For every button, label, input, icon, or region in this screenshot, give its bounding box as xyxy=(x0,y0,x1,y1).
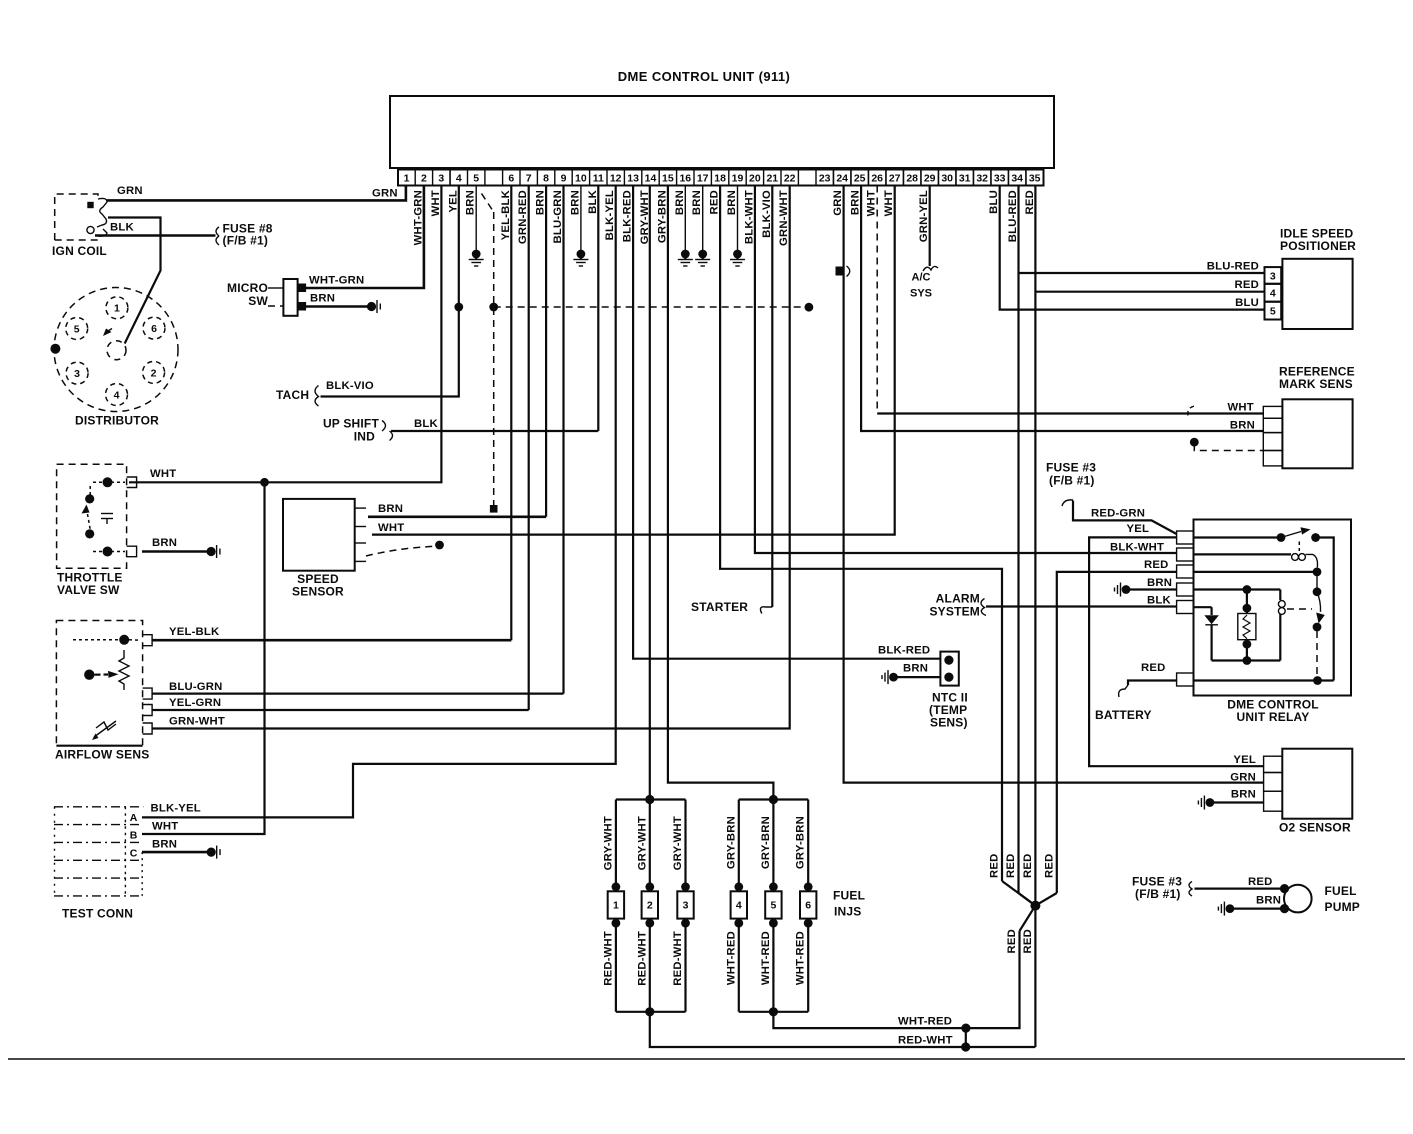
wire speed sensor dashed stub xyxy=(366,546,437,556)
node dashed wire end dot xyxy=(805,303,814,312)
throttle valve switch xyxy=(57,464,127,568)
svg-text:29: 29 xyxy=(924,173,936,185)
wire pin 33 BLU to idle speed positioner xyxy=(1000,186,1265,310)
svg-text:BLU-GRN: BLU-GRN xyxy=(552,190,564,243)
node BRN terminal xyxy=(367,302,376,311)
wire BRN ground to relay xyxy=(1130,588,1177,590)
svg-text:12: 12 xyxy=(610,173,622,185)
fuel injector 5 xyxy=(772,800,774,892)
tach connector xyxy=(315,386,319,407)
throttle switch contact bottom xyxy=(103,547,113,557)
airflow sensor potentiometer xyxy=(119,650,129,690)
wire NTC BRN xyxy=(897,676,940,678)
svg-text:24: 24 xyxy=(836,173,848,185)
svg-text:26: 26 xyxy=(871,173,883,185)
svg-text:BRN: BRN xyxy=(1256,895,1281,907)
relay coil to armature dashed link xyxy=(1287,608,1312,610)
svg-text:2: 2 xyxy=(647,900,653,912)
battery connector hook xyxy=(1119,685,1128,697)
svg-text:BLK-RED: BLK-RED xyxy=(622,190,634,242)
svg-text:WHT-GRN: WHT-GRN xyxy=(309,275,364,287)
svg-text:31: 31 xyxy=(959,173,971,185)
svg-text:YEL: YEL xyxy=(1127,523,1150,535)
svg-text:BLU: BLU xyxy=(988,190,1000,214)
svg-text:14: 14 xyxy=(645,173,657,185)
airflow sensor xyxy=(56,621,142,746)
relay switch blade xyxy=(1281,532,1301,538)
relay internal bottom rail xyxy=(1212,659,1281,661)
svg-text:4: 4 xyxy=(736,900,742,912)
svg-text:GRN-RED: GRN-RED xyxy=(517,190,529,244)
node dashed wire dot xyxy=(489,303,498,312)
svg-text:2: 2 xyxy=(151,367,157,379)
svg-text:INJS: INJS xyxy=(834,905,861,919)
wire pin 8 BRN to speed sensor xyxy=(545,186,547,517)
svg-text:1: 1 xyxy=(114,303,120,315)
wire speed sensor BRN to pin 8 xyxy=(368,515,546,518)
svg-text:RED-WHT: RED-WHT xyxy=(602,931,614,986)
svg-text:20: 20 xyxy=(749,173,761,185)
svg-text:YEL: YEL xyxy=(1233,754,1256,766)
svg-text:SYS: SYS xyxy=(910,288,932,300)
node test conn BRN terminal xyxy=(207,848,216,857)
ground O2 BRN xyxy=(1206,798,1215,807)
svg-text:AIRFLOW SENS: AIRFLOW SENS xyxy=(55,748,149,762)
throttle switch capacitor bars xyxy=(101,513,113,515)
wire BRN ground to fuel pump xyxy=(1233,907,1284,909)
node inline connector on GRN wire xyxy=(836,267,844,276)
svg-text:STARTER: STARTER xyxy=(691,600,748,614)
fuel pump motor xyxy=(1284,885,1312,913)
svg-text:5: 5 xyxy=(473,173,479,185)
svg-text:IND: IND xyxy=(354,430,375,444)
NTC II temp sensor connector xyxy=(940,652,958,686)
svg-text:BRN: BRN xyxy=(674,190,686,215)
micro switch xyxy=(283,279,297,316)
wire pin 6 YEL-BLK to airflow sensor xyxy=(510,186,512,641)
svg-text:RED: RED xyxy=(1144,559,1168,571)
svg-text:GRN: GRN xyxy=(832,190,844,216)
svg-text:25: 25 xyxy=(854,173,866,185)
wire airflow BLU-GRN to pin 9 xyxy=(152,692,564,694)
throttle switch contact top xyxy=(103,477,113,487)
svg-text:BRN: BRN xyxy=(850,190,862,215)
svg-text:WHT: WHT xyxy=(152,821,178,833)
relay terminal RED xyxy=(1177,565,1194,578)
wire WHT-RED supply rail xyxy=(773,931,1019,1028)
svg-text:GRY-WHT: GRY-WHT xyxy=(672,816,684,870)
svg-text:RED: RED xyxy=(1248,876,1272,888)
test connector xyxy=(54,806,143,808)
wire dashed horizontal link xyxy=(494,306,809,308)
svg-text:4: 4 xyxy=(456,173,462,185)
svg-text:3: 3 xyxy=(683,900,689,912)
svg-text:BRN: BRN xyxy=(535,190,547,215)
wire test conn C BRN stub xyxy=(142,851,209,854)
distributor cap terminal 2 xyxy=(143,361,165,383)
wire link between rails xyxy=(965,1028,967,1047)
wire RED-GRN fuse #3 to relay xyxy=(1073,501,1177,535)
relay armature dashed link xyxy=(1316,631,1318,676)
svg-text:BLU: BLU xyxy=(1235,297,1259,309)
node junction dot pin 4 on dashed line level xyxy=(454,303,463,312)
relay terminal BRN xyxy=(1177,583,1194,596)
wire RED diag from pin18 feed xyxy=(1002,881,1035,906)
svg-text:UNIT RELAY: UNIT RELAY xyxy=(1237,710,1310,724)
relay internal YEL wire xyxy=(1194,536,1282,538)
svg-text:3: 3 xyxy=(438,173,444,185)
node A/C connector curl xyxy=(923,266,938,271)
svg-text:BLK: BLK xyxy=(1147,595,1171,607)
svg-text:BLK: BLK xyxy=(110,222,134,234)
fuel injector 1 xyxy=(615,800,617,892)
svg-text:YEL-GRN: YEL-GRN xyxy=(169,697,221,709)
svg-text:WHT-RED: WHT-RED xyxy=(725,931,737,985)
wire micro switch BRN stub xyxy=(306,305,369,308)
svg-text:BRN: BRN xyxy=(1231,789,1256,801)
wire pin 20 BLK-WHT to DME relay xyxy=(755,186,1177,554)
wire battery RED to relay xyxy=(1128,681,1177,686)
svg-text:6: 6 xyxy=(151,323,157,335)
O2 sensor xyxy=(1282,749,1352,819)
svg-text:WHT: WHT xyxy=(378,522,404,534)
throttle switch wiper arrow xyxy=(82,505,90,514)
ground pin 17 xyxy=(698,250,707,259)
DME connector pin row 1-35 xyxy=(398,170,1044,186)
svg-text:VALVE SW: VALVE SW xyxy=(57,583,120,597)
svg-text:GRN: GRN xyxy=(372,188,398,200)
svg-text:RED-WHT: RED-WHT xyxy=(672,931,684,986)
svg-text:SENSOR: SENSOR xyxy=(292,585,344,599)
svg-text:GRY-WHT: GRY-WHT xyxy=(636,816,648,870)
wire RED relay feed down to injector supply xyxy=(1057,572,1177,893)
svg-text:WHT: WHT xyxy=(883,190,895,216)
wire shield dashed to ref mark sensor xyxy=(1190,438,1199,447)
svg-text:3: 3 xyxy=(1270,270,1276,282)
wire up shift IND BLK to pin 11 xyxy=(391,430,598,432)
svg-text:TEST CONN: TEST CONN xyxy=(62,907,133,921)
wire pin 34 BLU-RED to idle speed positioner xyxy=(1017,186,1019,894)
svg-text:POSITIONER: POSITIONER xyxy=(1280,239,1356,253)
wire RED diag from pin34 feed xyxy=(1019,893,1036,906)
node dashed stub dot xyxy=(435,541,444,550)
svg-text:YEL-BLK: YEL-BLK xyxy=(169,626,220,638)
relay resistor xyxy=(1246,590,1248,614)
distributor xyxy=(54,288,178,412)
ground NTC BRN xyxy=(889,673,898,682)
wire pin 2 WHT-GRN to micro switch xyxy=(303,186,424,289)
svg-text:UP SHIFT: UP SHIFT xyxy=(323,417,380,431)
wire pin 26 WHT dashed to reference mark sensor xyxy=(876,186,878,414)
svg-text:RED: RED xyxy=(989,854,1001,878)
svg-text:RED-WHT: RED-WHT xyxy=(898,1035,953,1047)
wire pin 3 WHT to throttle valve switch xyxy=(129,186,441,483)
wire pin 17 BRN to ground xyxy=(702,186,704,255)
svg-text:BLK: BLK xyxy=(587,189,599,213)
svg-text:RED: RED xyxy=(1022,929,1034,953)
svg-text:BLK-YEL: BLK-YEL xyxy=(151,803,201,815)
wire pin 4 YEL to TACH xyxy=(321,186,459,397)
wire pin 29 GRN-YEL to A/C system xyxy=(929,186,931,267)
svg-text:13: 13 xyxy=(627,173,639,185)
fuse #3 connector hook xyxy=(1062,500,1073,506)
DME control unit box xyxy=(390,96,1054,168)
throttle switch contact mid-top xyxy=(85,494,94,503)
relay terminal YEL xyxy=(1177,531,1194,544)
svg-text:3: 3 xyxy=(74,368,80,380)
svg-text:BRN: BRN xyxy=(691,190,703,215)
starter connector xyxy=(760,607,772,614)
svg-text:1: 1 xyxy=(613,900,619,912)
svg-text:22: 22 xyxy=(784,173,796,185)
svg-text:1: 1 xyxy=(404,173,410,185)
svg-text:8: 8 xyxy=(543,173,549,185)
wire O2 BRN xyxy=(1213,801,1264,803)
svg-text:(F/B #1): (F/B #1) xyxy=(1135,887,1181,901)
svg-text:RED: RED xyxy=(1022,854,1034,878)
svg-text:6: 6 xyxy=(508,173,514,185)
up shift connector xyxy=(382,421,393,441)
wire YEL O2 sensor to relay xyxy=(1089,537,1264,766)
svg-text:BLK-WHT: BLK-WHT xyxy=(743,190,755,244)
micro switch terminal WHT-GRN xyxy=(298,284,307,293)
svg-text:BLU-GRN: BLU-GRN xyxy=(169,681,222,693)
relay diode xyxy=(1194,606,1212,608)
svg-text:GRN-YEL: GRN-YEL xyxy=(918,190,930,242)
fuel injector 4 xyxy=(738,800,740,892)
svg-text:IGN COIL: IGN COIL xyxy=(52,244,107,258)
svg-text:27: 27 xyxy=(889,173,901,185)
DME control unit relay box xyxy=(1194,520,1352,696)
wire pin 5 BRN to ground xyxy=(475,186,477,255)
svg-text:BRN: BRN xyxy=(903,663,928,675)
svg-text:11: 11 xyxy=(593,173,604,185)
svg-text:2: 2 xyxy=(421,173,427,185)
wire pin 10 BRN to ground xyxy=(580,186,582,255)
wire pin 18 RED feed to injector supply xyxy=(720,186,1002,882)
svg-text:SYSTEM: SYSTEM xyxy=(929,605,980,619)
svg-text:MICRO: MICRO xyxy=(227,281,268,295)
svg-text:A/C: A/C xyxy=(912,272,931,284)
ignition coil xyxy=(55,194,98,240)
svg-text:GRY-BRN: GRY-BRN xyxy=(760,816,772,869)
wire pin 1 GRN stub xyxy=(107,186,406,201)
svg-text:GRN-WHT: GRN-WHT xyxy=(169,716,225,728)
wire RED fuse to fuel pump xyxy=(1195,887,1285,889)
ground relay BRN xyxy=(1122,585,1131,594)
airflow sensor top contact xyxy=(119,635,129,645)
svg-text:GRY-BRN: GRY-BRN xyxy=(725,816,737,869)
node dot on distributor rim xyxy=(50,344,60,354)
wire alarm system BLK to relay xyxy=(986,605,1177,607)
svg-text:19: 19 xyxy=(732,173,744,185)
distributor rotor arrow xyxy=(103,329,112,337)
svg-text:7: 7 xyxy=(526,173,532,185)
svg-text:RED: RED xyxy=(1024,190,1036,214)
wire pin 19 BRN to ground xyxy=(737,186,739,255)
wire pin 16 BRN to ground xyxy=(684,186,686,255)
svg-text:BLK: BLK xyxy=(414,418,438,430)
node dashed wire terminal square on speed sensor BRN wire xyxy=(490,505,498,513)
svg-text:BLK-YEL: BLK-YEL xyxy=(604,190,616,240)
svg-text:(F/B #1): (F/B #1) xyxy=(1049,474,1095,488)
wire pin 35 RED long feed xyxy=(1034,186,1036,1048)
svg-text:RED: RED xyxy=(1141,662,1165,674)
svg-text:O2 SENSOR: O2 SENSOR xyxy=(1279,821,1351,835)
svg-text:RED: RED xyxy=(709,190,721,214)
svg-text:17: 17 xyxy=(697,173,709,185)
bottom rule xyxy=(8,1058,1405,1060)
svg-text:(F/B #1): (F/B #1) xyxy=(223,234,269,248)
wire RED branch to ISP pin 4 xyxy=(1035,291,1264,293)
ground pin 5 xyxy=(472,250,481,259)
svg-text:WHT: WHT xyxy=(430,190,442,216)
svg-text:34: 34 xyxy=(1011,173,1023,185)
svg-text:WHT: WHT xyxy=(150,468,176,480)
svg-text:RED: RED xyxy=(1006,929,1018,953)
svg-text:6: 6 xyxy=(805,900,811,912)
ign coil terminal 1 xyxy=(87,202,93,208)
svg-text:B: B xyxy=(130,830,138,842)
ground fuel pump BRN xyxy=(1226,904,1235,913)
svg-text:4: 4 xyxy=(1270,288,1276,300)
wire airflow YEL-GRN to pin 7 xyxy=(152,709,529,711)
fuel injector 3 xyxy=(684,800,686,892)
svg-text:BLK-VIO: BLK-VIO xyxy=(326,380,374,392)
svg-text:BLU-RED: BLU-RED xyxy=(1007,190,1019,242)
node junction dot on throttle WHT wire xyxy=(260,478,269,487)
svg-text:BLK-VIO: BLK-VIO xyxy=(761,190,773,238)
svg-text:35: 35 xyxy=(1029,173,1041,185)
svg-text:RED: RED xyxy=(1235,279,1259,291)
svg-text:4: 4 xyxy=(114,389,120,401)
svg-text:5: 5 xyxy=(770,900,776,912)
svg-text:BRN: BRN xyxy=(152,839,177,851)
svg-text:YEL-BLK: YEL-BLK xyxy=(500,189,512,240)
relay switch common to output xyxy=(1316,538,1334,681)
ground pin 16 xyxy=(681,250,690,259)
svg-text:BRN: BRN xyxy=(1230,420,1255,432)
distributor cap terminal 3 xyxy=(66,362,88,384)
airflow sensor temp resistor xyxy=(96,722,116,730)
wire pin 9 BLU-GRN to airflow sensor xyxy=(562,186,564,694)
svg-text:GRY-WHT: GRY-WHT xyxy=(602,816,614,870)
svg-text:FUEL: FUEL xyxy=(833,889,865,903)
wire pin 14 GRY-WHT to fuel injectors 1-3 xyxy=(649,186,651,800)
svg-text:GRN: GRN xyxy=(117,185,143,197)
svg-text:PUMP: PUMP xyxy=(1325,900,1360,914)
svg-text:BLU-RED: BLU-RED xyxy=(1207,261,1259,273)
speed sensor xyxy=(283,499,355,571)
distributor cap terminal 1 xyxy=(106,297,128,319)
svg-text:GRY-BRN: GRY-BRN xyxy=(656,190,668,243)
svg-text:WHT: WHT xyxy=(1227,402,1253,414)
wire pin 25 BRN to reference mark sensor xyxy=(861,186,1263,432)
wire RED diag to WHT-RED rail xyxy=(1020,906,1036,931)
svg-text:RED-WHT: RED-WHT xyxy=(636,931,648,986)
wire ign coil BLK to fuse #8 xyxy=(95,234,216,237)
svg-text:BRN: BRN xyxy=(569,190,581,215)
relay terminal BLK-WHT xyxy=(1177,548,1194,561)
node inline connector tick on WHT wire xyxy=(1188,406,1195,416)
svg-text:FUSE #3: FUSE #3 xyxy=(1046,461,1096,475)
distributor cap terminal 5 xyxy=(66,318,88,340)
svg-text:32: 32 xyxy=(976,173,988,185)
svg-text:15: 15 xyxy=(662,173,674,185)
throttle switch contact mid-bottom xyxy=(85,529,94,538)
svg-text:A: A xyxy=(130,812,138,824)
wire RED diag from relay feed xyxy=(1035,893,1056,906)
ground pin 19 xyxy=(733,250,742,259)
svg-text:30: 30 xyxy=(941,173,953,185)
node throttle BRN terminal xyxy=(207,547,216,556)
svg-text:BRN: BRN xyxy=(1147,577,1172,589)
fuel injector group 1 frame xyxy=(616,798,686,800)
svg-text:BATTERY: BATTERY xyxy=(1095,708,1152,722)
svg-text:DME CONTROL UNIT (911): DME CONTROL UNIT (911) xyxy=(618,69,791,84)
wire test-conn WHT riser xyxy=(142,482,265,834)
fuel injector group 2 frame xyxy=(739,798,808,800)
svg-text:10: 10 xyxy=(575,173,587,185)
svg-text:GRN: GRN xyxy=(1230,772,1256,784)
svg-text:BRN: BRN xyxy=(465,190,477,215)
wire dashed spare-slot vertical xyxy=(493,212,495,505)
svg-text:BRN: BRN xyxy=(310,293,335,305)
svg-text:TACH: TACH xyxy=(276,388,309,402)
svg-text:BRN: BRN xyxy=(378,503,403,515)
wire BLU-RED branch to ISP pin 3 xyxy=(1019,272,1265,274)
svg-text:WHT-RED: WHT-RED xyxy=(898,1016,952,1028)
svg-text:MARK SENS: MARK SENS xyxy=(1279,377,1353,391)
wire throttle BRN stub xyxy=(142,550,209,553)
distributor cap terminal 4 xyxy=(106,384,128,406)
fuel injector 2 xyxy=(649,800,651,892)
svg-text:21: 21 xyxy=(766,173,778,185)
relay internal RED wire xyxy=(1194,571,1315,573)
fuse #3 connector xyxy=(1189,882,1192,897)
svg-text:SENS): SENS) xyxy=(930,716,968,730)
svg-text:YEL: YEL xyxy=(447,190,459,213)
svg-text:18: 18 xyxy=(714,173,726,185)
svg-text:BRN: BRN xyxy=(726,190,738,215)
distributor cap terminal 6 xyxy=(143,317,165,339)
svg-text:16: 16 xyxy=(679,173,691,185)
svg-text:WHT-RED: WHT-RED xyxy=(760,931,772,985)
wire pin 22 GRN-WHT to airflow sensor xyxy=(152,186,790,729)
relay internal BLK-WHT winding xyxy=(1194,553,1292,555)
wire pin 7 GRN-RED to airflow sensor xyxy=(528,186,530,711)
svg-text:9: 9 xyxy=(561,173,567,185)
wire pin 12 BLK-YEL to test connector xyxy=(142,186,616,818)
ign coil terminal 2 xyxy=(87,226,94,233)
svg-text:ALARM: ALARM xyxy=(936,592,980,606)
svg-text:GRN-WHT: GRN-WHT xyxy=(778,190,790,246)
node RED merge junction xyxy=(1030,901,1040,911)
wire pin 21 BLK-VIO to starter xyxy=(771,186,773,608)
svg-text:BLK-WHT: BLK-WHT xyxy=(1110,542,1164,554)
ground pin 10 xyxy=(577,250,586,259)
wire pin 15 GRY-BRN to fuel injectors 4-6 xyxy=(668,186,774,800)
wire airflow YEL-BLK to pin 6 xyxy=(152,639,511,642)
wire dashed spare-slot diagonal xyxy=(482,194,494,213)
svg-text:C: C xyxy=(130,848,138,860)
svg-text:RED-GRN: RED-GRN xyxy=(1091,508,1145,520)
micro switch terminal BRN xyxy=(298,302,307,311)
alarm system connector xyxy=(981,599,986,616)
airflow sensor wiper xyxy=(84,670,94,680)
fuel injector 6 xyxy=(807,800,809,892)
svg-text:BLK-RED: BLK-RED xyxy=(878,645,930,657)
